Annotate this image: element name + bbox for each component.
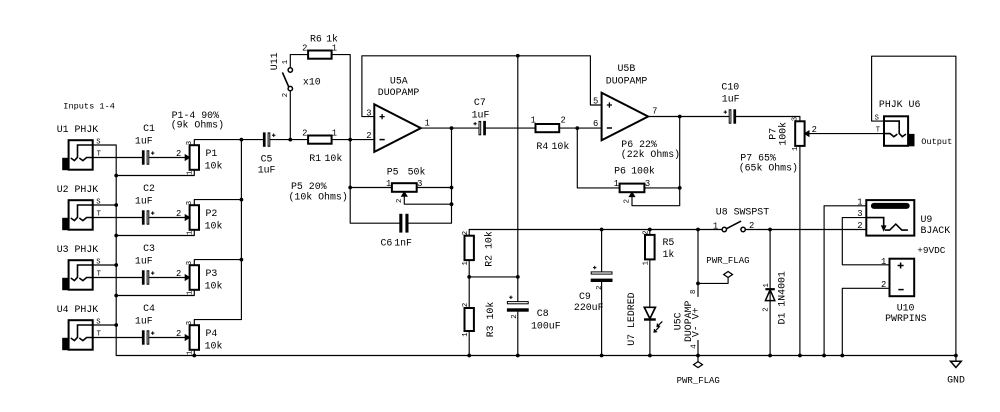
svg-text:U4 PHJK: U4 PHJK: [57, 304, 99, 315]
svg-text:2: 2: [857, 221, 862, 231]
svg-text:10k: 10k: [205, 220, 223, 231]
svg-text:S: S: [96, 258, 100, 266]
svg-text:100uF: 100uF: [531, 321, 561, 332]
svg-text:2: 2: [763, 307, 771, 311]
svg-text:Output: Output: [921, 137, 952, 147]
svg-text:2: 2: [624, 199, 632, 203]
svg-text:DUOPAMP: DUOPAMP: [378, 87, 420, 98]
svg-text:x10: x10: [303, 77, 321, 88]
svg-text:3: 3: [186, 261, 194, 265]
svg-text:10k: 10k: [325, 153, 343, 164]
svg-text:(65k Ohms): (65k Ohms): [739, 163, 798, 174]
svg-text:U5B: U5B: [618, 63, 636, 74]
svg-text:R2 10k: R2 10k: [483, 231, 494, 267]
svg-text:PWR_FLAG: PWR_FLAG: [706, 256, 749, 266]
svg-text:220uF: 220uF: [574, 302, 604, 313]
svg-text:1nF: 1nF: [394, 238, 412, 249]
svg-text:10k: 10k: [205, 280, 223, 291]
svg-text:C8: C8: [537, 308, 549, 319]
svg-text:1: 1: [881, 257, 886, 267]
svg-text:C6: C6: [381, 238, 393, 249]
svg-text:10k: 10k: [205, 340, 223, 351]
svg-text:3: 3: [366, 108, 371, 118]
svg-text:50k: 50k: [408, 166, 426, 177]
svg-text:3: 3: [857, 209, 862, 219]
svg-text:7: 7: [652, 107, 657, 117]
svg-text:U5C: U5C: [673, 312, 684, 330]
svg-text:P2: P2: [206, 208, 218, 219]
svg-text:1: 1: [857, 197, 862, 207]
svg-text:3: 3: [186, 141, 194, 145]
svg-text:PWRPINS: PWRPINS: [885, 313, 927, 324]
svg-text:100k: 100k: [631, 166, 655, 177]
svg-text:DUOPAMP: DUOPAMP: [606, 76, 648, 87]
svg-text:PWR_FLAG: PWR_FLAG: [677, 376, 720, 386]
svg-text:BJACK: BJACK: [921, 225, 951, 236]
svg-text:2: 2: [749, 221, 754, 231]
svg-text:1uF: 1uF: [472, 109, 490, 120]
svg-text:Inputs 1-4: Inputs 1-4: [63, 102, 115, 112]
svg-text:PHJK U6: PHJK U6: [879, 99, 921, 110]
svg-text:8: 8: [690, 290, 698, 294]
svg-text:1: 1: [386, 179, 391, 189]
svg-text:3: 3: [186, 201, 194, 205]
svg-text:2: 2: [596, 286, 604, 290]
svg-text:2: 2: [282, 93, 290, 97]
svg-text:+9VDC: +9VDC: [917, 245, 946, 256]
svg-text:1: 1: [187, 290, 195, 295]
svg-text:1: 1: [763, 282, 771, 287]
svg-text:U11: U11: [269, 52, 280, 70]
svg-text:GND: GND: [947, 375, 965, 386]
svg-text:1uF: 1uF: [135, 316, 153, 327]
svg-text:10k: 10k: [552, 141, 570, 152]
svg-text:1: 1: [187, 350, 195, 355]
svg-text:C9: C9: [579, 291, 591, 302]
svg-text:C4: C4: [143, 303, 155, 314]
svg-text:1uF: 1uF: [135, 256, 153, 267]
svg-text:4: 4: [691, 344, 699, 349]
svg-text:P3: P3: [206, 268, 218, 279]
svg-text:(10k Ohms): (10k Ohms): [289, 191, 348, 202]
svg-text:1uF: 1uF: [258, 165, 276, 176]
svg-text:V- V+: V- V+: [691, 307, 702, 337]
svg-text:6: 6: [593, 119, 598, 129]
svg-text:T: T: [97, 330, 101, 338]
svg-text:(22k Ohms): (22k Ohms): [621, 149, 680, 160]
svg-text:1uF: 1uF: [135, 196, 153, 207]
svg-text:2: 2: [176, 329, 181, 339]
svg-text:C10: C10: [721, 82, 739, 93]
svg-text:P5: P5: [387, 166, 399, 177]
svg-text:C5: C5: [261, 153, 273, 164]
svg-text:S: S: [96, 198, 100, 206]
svg-text:U7 LEDRED: U7 LEDRED: [626, 292, 637, 345]
svg-text:1: 1: [462, 332, 470, 337]
svg-text:C2: C2: [143, 183, 155, 194]
svg-text:2: 2: [176, 209, 181, 219]
svg-text:2: 2: [462, 231, 470, 235]
svg-text:1: 1: [713, 221, 718, 231]
svg-text:2: 2: [302, 129, 307, 139]
svg-text:2: 2: [511, 314, 519, 318]
svg-text:2: 2: [462, 303, 470, 307]
svg-text:U9: U9: [921, 214, 933, 225]
svg-text:U3 PHJK: U3 PHJK: [57, 244, 99, 255]
svg-text:1: 1: [425, 118, 430, 128]
svg-text:T: T: [97, 210, 101, 218]
svg-text:3: 3: [792, 117, 800, 121]
svg-text:10k: 10k: [205, 160, 223, 171]
svg-text:1: 1: [187, 170, 195, 175]
svg-text:U10: U10: [897, 302, 915, 313]
svg-text:1: 1: [614, 179, 619, 189]
svg-text:U8 SWSPST: U8 SWSPST: [716, 207, 769, 218]
svg-text:P1: P1: [206, 148, 218, 159]
svg-text:U5A: U5A: [390, 76, 408, 87]
svg-text:U1 PHJK: U1 PHJK: [57, 124, 99, 135]
svg-text:C7: C7: [474, 97, 486, 108]
svg-text:1: 1: [531, 115, 536, 125]
svg-text:2: 2: [642, 230, 650, 234]
svg-text:1: 1: [332, 44, 337, 54]
svg-text:1uF: 1uF: [135, 136, 153, 147]
svg-text:R5: R5: [663, 237, 675, 248]
svg-text:2: 2: [176, 269, 181, 279]
svg-text:1: 1: [792, 146, 800, 151]
svg-text:S: S: [96, 138, 100, 146]
svg-text:1: 1: [462, 260, 470, 265]
svg-text:1: 1: [642, 260, 650, 265]
svg-text:C3: C3: [143, 243, 155, 254]
svg-text:2: 2: [561, 115, 566, 125]
svg-text:U2 PHJK: U2 PHJK: [57, 184, 99, 195]
svg-text:2: 2: [366, 131, 371, 141]
svg-text:S: S: [96, 318, 100, 326]
svg-text:2: 2: [812, 125, 817, 135]
svg-text:1: 1: [332, 129, 337, 139]
svg-text:3: 3: [186, 321, 194, 325]
svg-text:2: 2: [396, 199, 404, 203]
svg-text:T: T: [97, 270, 101, 278]
svg-text:D1 1N4001: D1 1N4001: [777, 271, 788, 324]
svg-text:3: 3: [417, 179, 422, 189]
svg-text:2: 2: [176, 149, 181, 159]
svg-text:P4: P4: [206, 328, 218, 339]
svg-text:(9k Ohms): (9k Ohms): [171, 120, 224, 131]
svg-text:R3 10k: R3 10k: [485, 302, 496, 338]
svg-text:1: 1: [282, 59, 290, 64]
svg-text:100k: 100k: [778, 122, 789, 146]
svg-text:T: T: [97, 150, 101, 158]
svg-text:1uF: 1uF: [722, 94, 740, 105]
svg-text:2: 2: [302, 44, 307, 54]
svg-text:R1: R1: [309, 153, 321, 164]
svg-text:R6: R6: [310, 34, 322, 45]
svg-text:C1: C1: [143, 123, 155, 134]
svg-text:T: T: [876, 126, 880, 134]
svg-text:3: 3: [645, 179, 650, 189]
svg-text:R4: R4: [536, 141, 548, 152]
svg-text:S: S: [875, 115, 879, 123]
svg-text:P6: P6: [614, 166, 626, 177]
svg-text:5: 5: [593, 97, 598, 107]
svg-text:2: 2: [881, 280, 886, 290]
svg-text:1: 1: [187, 230, 195, 235]
svg-text:1k: 1k: [663, 249, 675, 260]
